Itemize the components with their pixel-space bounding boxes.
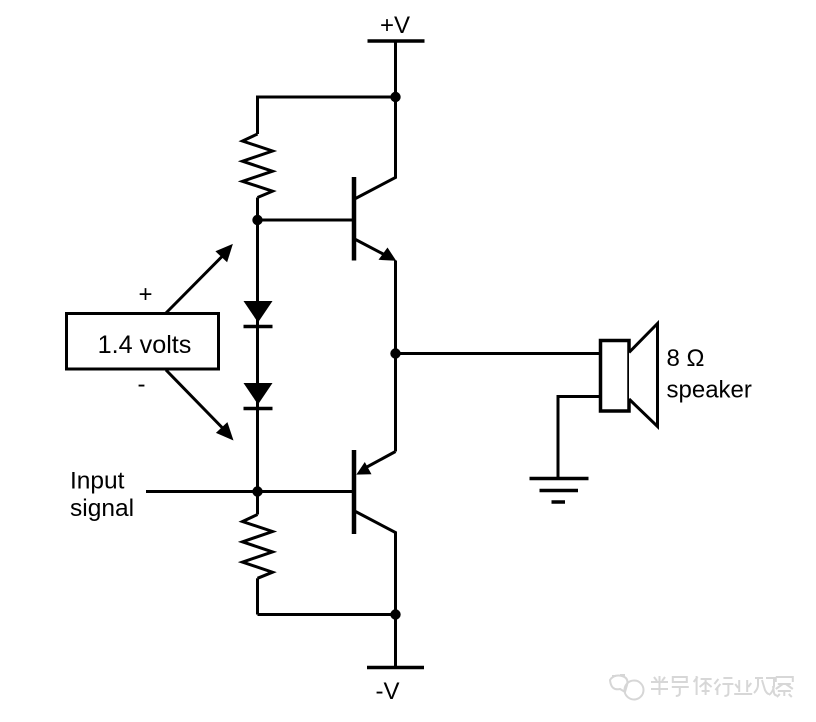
transistor Q1 collector (diagonal + vertical to node A) [356, 97, 396, 199]
察 [776, 677, 793, 697]
wire output node C to speaker [396, 352, 603, 355]
watermark text (faint CJK approximation) [651, 676, 793, 697]
transistor Q2 collector (diagonal + vertical to node E) [356, 512, 396, 616]
wire R1 to node B [256, 198, 259, 221]
svg-text:8 Ω: 8 Ω [667, 345, 705, 372]
speaker box [601, 341, 630, 412]
ground symbol [530, 477, 589, 481]
arrow from box to diode bottom (annotation) [166, 370, 224, 430]
业 [734, 680, 752, 694]
wire node C to Q2 emitter [394, 354, 397, 452]
svg-text:signal: signal [70, 495, 134, 522]
svg-text:1.4 volts: 1.4 volts [98, 331, 192, 359]
transistor Q1 emitter (diagonal) [356, 240, 387, 256]
diode D2 (triangle) [244, 383, 273, 405]
transistor Q1 emitter arrowhead [379, 248, 397, 261]
wire left column down to resistor R1 [256, 96, 259, 135]
speaker horn [629, 324, 658, 427]
resistor R2 [243, 515, 273, 579]
wire node D down to resistor R2 [256, 492, 259, 515]
node A (junction at +V rail) [390, 92, 400, 102]
wire speaker to ground [558, 397, 601, 479]
-V supply bar [367, 666, 424, 670]
wire Q1 emitter to node C [394, 261, 397, 354]
svg-text:Input: Input [70, 468, 125, 495]
+V supply bar [368, 39, 425, 43]
体 [694, 676, 712, 695]
transistor Q2 base bar [352, 450, 357, 534]
transistor Q2 emitter arrowhead [356, 462, 371, 475]
node D (input node) [252, 486, 262, 496]
arrow from box to diode top (annotation) [166, 255, 224, 314]
wire Q1 base [258, 219, 353, 222]
wire R2 to bottom rail [256, 578, 259, 614]
wire bottom horizontal to node E [258, 613, 396, 616]
svg-text:-: - [138, 371, 146, 398]
svg-text:+: + [138, 281, 152, 308]
node C (output node) [390, 348, 400, 358]
半 [651, 676, 668, 695]
wire node E to -V bar [394, 615, 397, 668]
diode D1 (triangle) [244, 301, 273, 323]
node E (-V junction) [390, 609, 400, 619]
wire top horizontal node A to left column [258, 96, 396, 99]
观 [754, 678, 777, 695]
svg-text:+V: +V [380, 12, 410, 39]
node B (R1 / diode / Q1 base junction) [252, 215, 262, 225]
resistor R1 [243, 134, 273, 198]
1.4 volts label box [67, 314, 219, 370]
transistor Q1 base bar [352, 177, 357, 261]
wire input signal [146, 490, 352, 493]
svg-text:speaker: speaker [667, 377, 752, 404]
watermark logo (faint) [610, 675, 644, 700]
transistor Q2 emitter (diagonal) [366, 452, 396, 468]
行 [714, 678, 733, 696]
diode D2 cathode bar [244, 407, 273, 411]
wire node B down to diode D1 [256, 220, 259, 492]
wire +V bar to node A [394, 41, 397, 97]
导 [672, 677, 689, 696]
svg-text:-V: -V [376, 678, 400, 705]
diode D1 cathode bar [244, 325, 273, 329]
